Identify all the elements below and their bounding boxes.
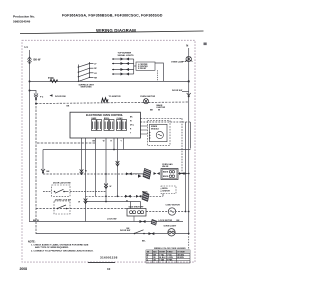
svg-text:BK-W: BK-W [34,58,41,61]
svg-text:1. CHECK AGENCY LABEL ON RANGE: 1. CHECK AGENCY LABEL ON RANGE FOR WIRE … [31,243,89,246]
svg-text:IGNITOR: IGNITOR [162,191,170,193]
svg-text:DR L: DR L [130,124,134,126]
svg-text:BR BRN: BR BRN [177,257,184,259]
svg-text:OVEN LAMP: OVEN LAMP [171,61,185,64]
svg-text:P PNK: P PNK [167,259,173,261]
svg-text:SWITCHES: SWITCHES [81,87,93,89]
svg-text:FGF366ASGA, FGF366BSGB, FGF366: FGF366ASGA, FGF366BSGB, FGF366CSGC, FGF3… [62,14,163,18]
svg-text:5995354549: 5995354549 [13,19,30,23]
svg-text:OVEN IGNITOR: OVEN IGNITOR [140,96,156,98]
svg-text:SIGNAL LIGHTS: SIGNAL LIGHTS [118,54,135,57]
svg-text:N: N [186,44,188,48]
svg-text:BK W: BK W [33,220,40,222]
svg-text:W: W [158,110,160,112]
svg-text:316001158: 316001158 [100,256,118,260]
svg-text:CLEAN: CLEAN [117,117,124,120]
svg-text:BROIL: BROIL [163,176,169,178]
svg-text:W: W [110,186,112,188]
svg-text:10: 10 [107,267,111,271]
svg-text:AND TYPE OF WIRE REQUIRED.: AND TYPE OF WIRE REQUIRED. [35,246,69,249]
svg-text:W: W [103,140,105,142]
svg-text:CONV MOTOR: CONV MOTOR [166,204,181,206]
svg-text:T TAN: T TAN [159,258,165,261]
svg-text:DOOR SW: DOOR SW [55,96,67,98]
svg-text:GY GRAY: GY GRAY [177,251,185,254]
svg-text:BK-: BK- [142,240,146,242]
svg-text:VALVE: VALVE [162,165,169,168]
svg-text:BK: BK [150,110,154,112]
svg-text:2. CONNECT TO A PROPERLY GROUN: 2. CONNECT TO A PROPERLY GROUNDED JUNCTI… [31,249,94,252]
svg-text:DOOR SW: DOOR SW [120,230,130,232]
svg-text:DOOR LATCH SW: DOOR LATCH SW [53,181,71,184]
svg-text:R RED: R RED [167,252,173,254]
svg-text:Production No.: Production No. [13,14,35,18]
svg-text:NOTE:: NOTE: [28,241,36,244]
svg-text:BROIL: BROIL [104,118,109,120]
svg-text:W: W [78,201,80,203]
svg-text:TO IGNITOR: TO IGNITOR [109,96,122,98]
svg-text:W: W [85,171,87,173]
svg-text:LOCK SW: LOCK SW [107,218,117,220]
svg-text:W: W [126,201,128,203]
svg-text:DOOR SW: DOOR SW [172,90,182,92]
svg-text:OVEN LIGHT: OVEN LIGHT [164,226,177,228]
svg-text:R FRONT: R FRONT [138,68,147,70]
svg-text:W WHT: W WHT [159,252,166,254]
svg-text:2008: 2008 [20,267,28,271]
svg-text:BROIL: BROIL [142,191,149,193]
svg-text:MODULE: MODULE [151,128,160,130]
svg-text:L1: L1 [25,45,29,49]
svg-text:ELECTRONIC OVEN CONTROL: ELECTRONIC OVEN CONTROL [86,114,124,117]
svg-text:LOCK MOTOR: LOCK MOTOR [159,220,173,222]
svg-text:BAKE: BAKE [163,171,169,174]
